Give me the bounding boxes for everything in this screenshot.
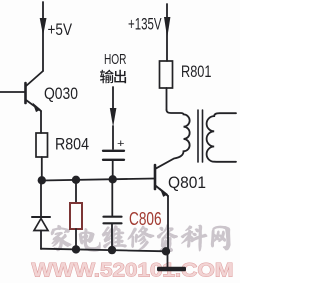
svg-text:C806: C806: [129, 209, 162, 229]
svg-text:R801: R801: [181, 62, 212, 81]
svg-text:Q030: Q030: [44, 84, 78, 103]
svg-text:HOR: HOR: [104, 51, 127, 68]
svg-text:WWW.520101.COM: WWW.520101.COM: [32, 261, 234, 282]
svg-text:+135V: +135V: [128, 15, 162, 34]
svg-text:Q801: Q801: [168, 173, 206, 192]
svg-text:+5V: +5V: [48, 20, 73, 39]
svg-text:+: +: [117, 138, 125, 150]
svg-text:R804: R804: [55, 135, 89, 154]
